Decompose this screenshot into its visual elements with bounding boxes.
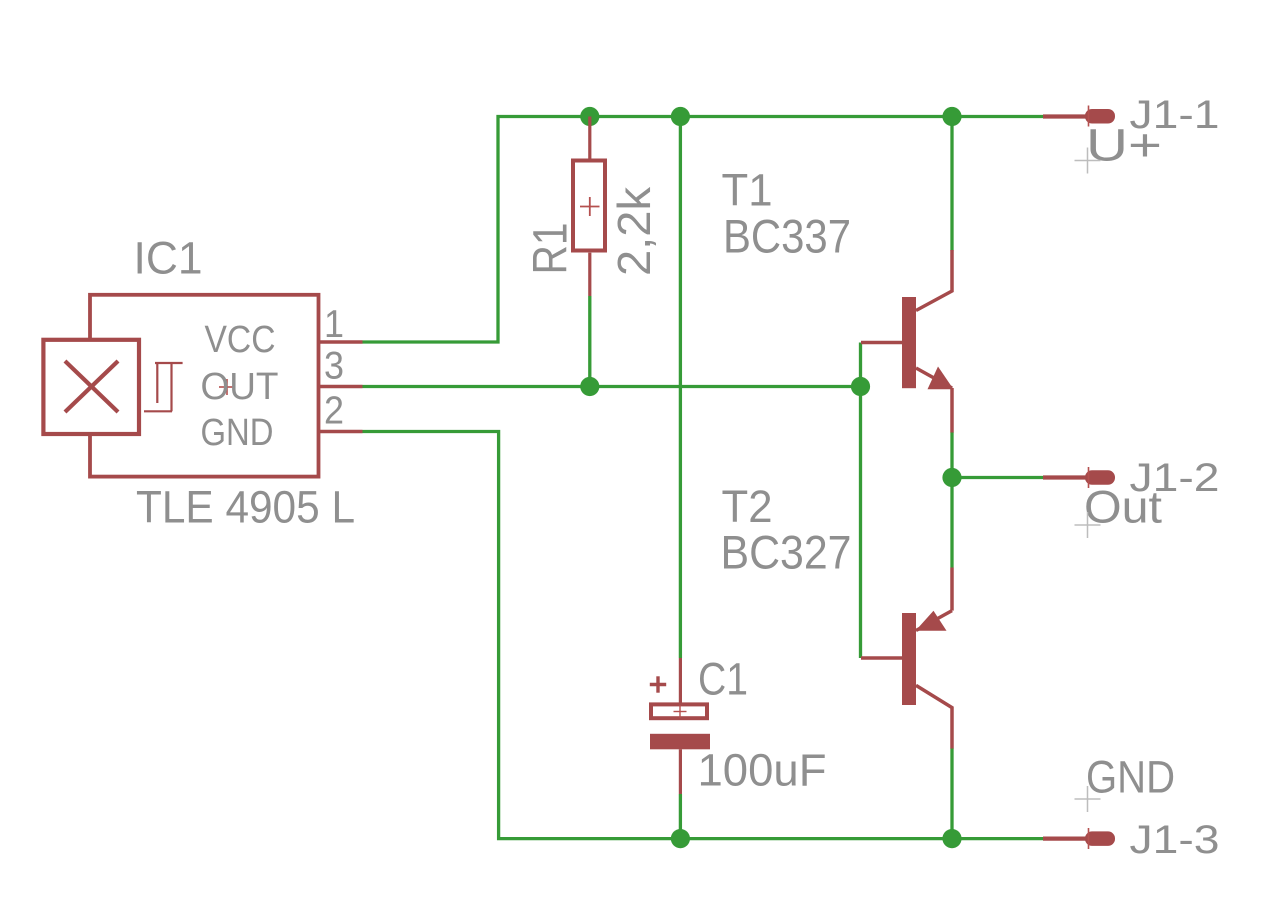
connector J1-1 pin cross — [1088, 106, 1090, 127]
connector J1-3 pin cross — [1088, 828, 1090, 849]
transistor T1 base stub — [861, 341, 902, 345]
svg-text:J1-3: J1-3 — [1130, 818, 1220, 862]
svg-text:IC1: IC1 — [134, 233, 203, 284]
net Out origin cross — [1075, 512, 1101, 538]
net GND origin cross — [1075, 786, 1101, 812]
IC1 pin 2 stub — [319, 430, 363, 433]
capacitor C1 origin cross — [674, 705, 687, 718]
wire net VCC: pin1 of IC1 up and along top rail — [363, 117, 1044, 343]
net U+ origin cross — [1075, 148, 1101, 174]
wire R1 bottom lead to OUT net — [588, 296, 591, 387]
svg-text:BC327: BC327 — [721, 526, 852, 579]
IC1 pin 1 stub — [319, 340, 363, 343]
junction OUT/R1 — [580, 377, 599, 396]
connector J1-1 wire stub — [1043, 114, 1086, 118]
svg-text:2,2k: 2,2k — [608, 186, 660, 276]
transistor T2 collector — [916, 685, 952, 748]
connector J1-3 pad — [1085, 831, 1115, 846]
capacitor C1 bottom lead — [679, 749, 682, 794]
connector J1-2 pad — [1085, 470, 1115, 485]
resistor R1 body — [573, 161, 605, 251]
connector J1-2 wire stub — [1043, 475, 1086, 479]
svg-text:C1: C1 — [698, 654, 748, 705]
transistor T1 emitter — [916, 367, 954, 433]
svg-text:R1: R1 — [525, 223, 578, 275]
wire net Out: T1 emitter / T2 emitter to J1-2 — [952, 432, 1043, 568]
svg-text:GND: GND — [201, 412, 274, 454]
capacitor C1 polarity plus — [650, 676, 666, 692]
capacitor C1 top lead — [679, 658, 682, 703]
transistor T2 base stub — [861, 656, 902, 660]
IC1 sensor sub-box — [43, 340, 139, 434]
wire T2 collector to GND rail — [950, 748, 953, 839]
connector J1-2 pin cross — [1088, 467, 1090, 488]
svg-text:BC337: BC337 — [723, 210, 851, 263]
svg-text:1: 1 — [324, 303, 344, 346]
transistor T2 BC327 base bar — [902, 613, 916, 705]
resistor R1 bottom lead — [588, 253, 591, 296]
svg-text:TLE 4905 L: TLE 4905 L — [136, 482, 355, 533]
svg-text:VCC: VCC — [205, 319, 276, 361]
svg-text:100uF: 100uF — [698, 745, 827, 796]
svg-text:2: 2 — [324, 390, 344, 433]
svg-text:3: 3 — [324, 345, 344, 388]
resistor R1 top lead — [588, 117, 591, 159]
capacitor C1 bottom plate (filled) — [650, 734, 710, 750]
junction VCC/T1 collector — [942, 107, 961, 126]
svg-text:T1: T1 — [722, 165, 773, 216]
IC1 pin 3 stub — [319, 385, 363, 388]
IC1 TLE4905L hall sensor body — [90, 295, 319, 477]
wire T1 collector to VCC rail — [950, 117, 953, 251]
IC1 origin cross — [219, 379, 235, 395]
junction Out node emitters — [942, 468, 961, 487]
connector J1-1 pad — [1085, 109, 1115, 124]
transistor T2 emitter — [916, 568, 953, 631]
transistor T1 collector — [916, 250, 952, 311]
junction VCC/C1 — [671, 107, 690, 126]
junction GND/C1 — [671, 829, 690, 848]
junction OUT/base link — [851, 377, 870, 396]
svg-text:GND: GND — [1086, 752, 1175, 803]
IC1 X cross inside sensor box — [67, 363, 117, 411]
junction VCC/R1 — [580, 107, 599, 126]
svg-text:OUT: OUT — [201, 366, 279, 408]
IC1 hysteresis symbol — [144, 363, 183, 411]
svg-text:T2: T2 — [722, 481, 773, 532]
connector J1-3 wire stub — [1043, 836, 1086, 840]
capacitor C1 top plate (hollow) — [651, 704, 707, 718]
resistor R1 origin cross — [580, 197, 600, 216]
wire net GND: pin2 of IC1 down and along bottom rail — [363, 432, 1044, 839]
wire C1 branch from VCC rail down — [679, 117, 682, 659]
junction GND/T2 collector — [942, 829, 961, 848]
transistor T1 BC337 base bar — [902, 297, 916, 388]
svg-text:U+: U+ — [1086, 120, 1162, 171]
wire C1 bottom to GND rail — [679, 794, 682, 839]
wire net OUT: pin3 of IC1 to transistor bases — [363, 343, 861, 659]
